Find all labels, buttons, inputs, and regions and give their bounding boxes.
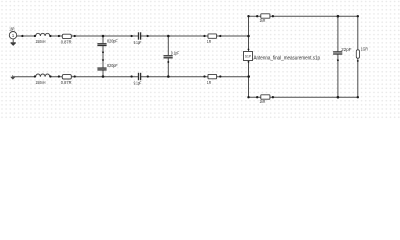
node: R1k bottom right bbox=[272, 96, 274, 98]
inductor L1 150nH (top) bbox=[36, 33, 50, 36]
wire 1GR branch upper bbox=[357, 16, 359, 50]
node: corner main vertical / bottom-right rail bbox=[247, 96, 249, 98]
svg-text:820pF: 820pF bbox=[107, 63, 118, 68]
node: 820pF branch top junction bbox=[102, 35, 105, 38]
node: top rail meets main vertical bbox=[247, 35, 250, 38]
node: 9.1pF shunt bottom pin bbox=[167, 61, 169, 63]
svg-text:9.1pF: 9.1pF bbox=[134, 40, 142, 45]
node: below 22pF bbox=[337, 59, 339, 61]
capacitor 9.1pF (shunt) bbox=[164, 56, 173, 58]
svg-text:1kR: 1kR bbox=[260, 99, 266, 104]
node: corner 1GR top bbox=[357, 15, 359, 17]
node: R0.87 bottom left bbox=[58, 75, 60, 77]
node: R0.87 bottom right bbox=[74, 75, 76, 77]
junction and pin dots bbox=[21, 15, 359, 99]
svg-text:9.1pF: 9.1pF bbox=[134, 80, 142, 85]
wire top rail left bbox=[17, 35, 36, 37]
wire bottom rail left bbox=[13, 76, 36, 78]
wire top rail right bbox=[141, 35, 249, 37]
node: R1 top left bbox=[203, 35, 205, 37]
wire 1GR branch lower bbox=[357, 58, 359, 97]
svg-text:820pF: 820pF bbox=[107, 38, 118, 43]
resistor 1kR (top) bbox=[261, 14, 270, 18]
wire bottom rail mid bbox=[50, 76, 138, 78]
node: R1 top right bbox=[219, 35, 221, 37]
node: L1 right bbox=[49, 35, 51, 37]
wire main vertical lower bbox=[248, 61, 250, 98]
svg-text:S1P: S1P bbox=[245, 55, 252, 59]
capacitor 820pF (upper shunt) bbox=[97, 44, 106, 46]
node: R1 bottom left bbox=[203, 75, 205, 77]
inductor L2 150nH (bottom) bbox=[36, 74, 50, 77]
port P1 (circle) bbox=[9, 32, 16, 39]
node: R1k top left bbox=[256, 15, 258, 17]
node: corner 1GR bottom bbox=[357, 96, 359, 98]
svg-text:22pF: 22pF bbox=[341, 47, 352, 52]
svg-text:150nH: 150nH bbox=[36, 80, 46, 85]
node: series cap bottom left bbox=[130, 75, 132, 77]
node: 820pF upper cap bottom pin bbox=[102, 51, 104, 53]
svg-text:16R: 16R bbox=[9, 26, 14, 31]
node: series cap top right bbox=[146, 35, 148, 37]
wire 22pF branch upper bbox=[337, 16, 339, 51]
node: L1 left bbox=[34, 35, 36, 37]
resistor 0.87R (bottom) bbox=[62, 75, 71, 79]
node: series cap top left bbox=[130, 35, 132, 37]
resistor 1kR (bottom) bbox=[261, 95, 270, 99]
svg-text:1R: 1R bbox=[207, 80, 211, 85]
node: corner main vertical / top-right rail bbox=[247, 15, 249, 17]
wire 22pF branch lower bbox=[337, 55, 339, 98]
resistor 1GR (vertical) bbox=[356, 50, 359, 59]
node: L2 left bbox=[34, 75, 36, 77]
svg-text:0.87R: 0.87R bbox=[61, 40, 72, 45]
node: 820pF branch bottom junction bbox=[102, 75, 105, 78]
svg-text:0.87R: 0.87R bbox=[61, 80, 72, 85]
resistor 1R (top) bbox=[208, 34, 217, 38]
wire port P1 to ground bbox=[12, 39, 14, 42]
node: R1 bottom right bbox=[219, 75, 221, 77]
capacitor 9.1pF series (top rail) bbox=[139, 32, 141, 39]
svg-text:1: 1 bbox=[12, 33, 15, 38]
node: R0.87 top right bbox=[74, 35, 76, 37]
capacitor 820pF (lower shunt) bbox=[97, 68, 106, 70]
capacitor 9.1pF series (bottom rail) bbox=[139, 73, 141, 80]
wire bottom rail right bbox=[141, 76, 249, 78]
node: 9.1pF branch bottom junction bbox=[167, 75, 170, 78]
svg-text:1GR: 1GR bbox=[361, 47, 368, 52]
node: below 1GR bbox=[357, 60, 359, 62]
node: 820pF lower cap top pin bbox=[102, 59, 104, 61]
node: R1k bottom left bbox=[256, 96, 258, 98]
node: R1k top right bbox=[272, 15, 274, 17]
node: L2 right bbox=[49, 75, 51, 77]
wire bottom-right rail bbox=[249, 96, 358, 98]
ground (port P1) bbox=[11, 43, 16, 46]
svg-text:1R: 1R bbox=[207, 39, 211, 44]
node: bottom rail meets main vertical bbox=[247, 75, 250, 78]
grid dots bbox=[0, 0, 400, 119]
node: S1P bottom pin bbox=[248, 61, 250, 63]
wire top rail mid bbox=[50, 35, 138, 37]
S1P file block bbox=[244, 52, 253, 61]
resistor 0.87R (top) bbox=[62, 34, 71, 38]
wire 820pF branch segments bbox=[102, 36, 104, 43]
node: port pin bbox=[21, 35, 23, 37]
resistor 1R (bottom) bbox=[208, 74, 217, 78]
svg-text:9.1pF: 9.1pF bbox=[171, 50, 180, 55]
node: S1P top pin bbox=[248, 49, 250, 51]
node: 22pF branch bottom junction bbox=[337, 96, 340, 99]
ground (bottom rail left) bbox=[11, 75, 15, 79]
wire main vertical upper bbox=[248, 16, 250, 51]
node: 22pF branch top junction bbox=[337, 15, 340, 18]
node: 9.1pF branch top junction bbox=[167, 35, 170, 38]
svg-text:1kR: 1kR bbox=[260, 18, 266, 23]
wire 9.1pF branch segments bbox=[167, 36, 169, 55]
node: series cap bottom right bbox=[147, 75, 149, 77]
svg-text:150nH: 150nH bbox=[36, 39, 46, 44]
svg-text:Antenna_final_measurement.s1p: Antenna_final_measurement.s1p bbox=[254, 55, 321, 61]
capacitor 22pF bbox=[333, 52, 342, 54]
wire top-right rail bbox=[249, 15, 358, 17]
node: R0.87 top left bbox=[58, 35, 60, 37]
